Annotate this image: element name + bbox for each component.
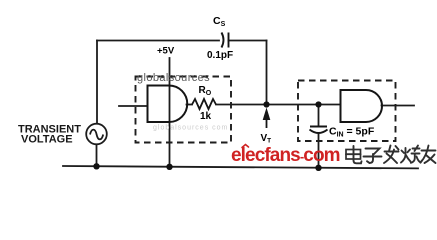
label TRANSIENT VOLTAGE (18, 124, 81, 146)
junction dot at CIN top / signal line (315, 101, 321, 107)
capacitor CIN plates (310, 127, 328, 134)
node V arrow (pointing up at junction) (266, 118, 268, 128)
wire capacitor CIN bottom lead (318, 133, 320, 168)
junction dot at CIN / bottom rail (315, 165, 321, 171)
dashed box around gate U1 (136, 77, 232, 143)
watermark chinese characters (drawn strokes) (346, 146, 436, 164)
junction dot at node V (263, 101, 269, 107)
dashed box around gate U2 (298, 81, 396, 142)
wire +5V vertical through gate U1 to bottom rail (169, 58, 171, 167)
watermark elecfans.com accent mark (242, 145, 249, 148)
wire right vertical (top corner down to node V) (266, 41, 268, 105)
wire top-left horizontal (source to Cs) (97, 40, 219, 42)
junction dot at +5V line / bottom rail (166, 164, 172, 170)
wire gate U1 input stub (119, 105, 147, 107)
svg-text:1k: 1k (200, 111, 212, 122)
svg-text:globalsources: globalsources (137, 72, 210, 84)
junction dot at source / bottom rail (93, 163, 99, 169)
svg-text:elecfans-com: elecfans-com (231, 145, 340, 166)
gate U1 (AND shape) (148, 86, 188, 123)
resistor RO zigzag (192, 99, 216, 109)
svg-text:VOLTAGE: VOLTAGE (21, 134, 73, 146)
wire resistor to gate U2 input (through node V) (216, 104, 340, 106)
svg-text:0.1pF: 0.1pF (207, 50, 233, 61)
svg-text:+5V: +5V (157, 46, 175, 57)
wire capacitor CIN top lead (318, 105, 320, 127)
wire gate U1 output to resistor (187, 104, 193, 106)
svg-text:VT: VT (261, 133, 272, 145)
AC source (transient voltage generator) (86, 124, 107, 145)
svg-text:RO: RO (199, 85, 212, 97)
capacitor CS (top, plates) (222, 33, 229, 48)
svg-text:CIN = 5pF: CIN = 5pF (329, 126, 375, 139)
wire gate U2 output (382, 105, 415, 107)
wire bottom rail (63, 166, 418, 168)
wire left vertical (corner down to source) (96, 41, 98, 124)
svg-text:CS: CS (213, 15, 226, 28)
wire top-right horizontal (Cs to corner) (229, 40, 267, 42)
wire source bottom to ground rail (96, 145, 98, 167)
gate U2 (AND shape) (341, 90, 383, 122)
svg-text:globalsources com: globalsources com (153, 125, 228, 132)
